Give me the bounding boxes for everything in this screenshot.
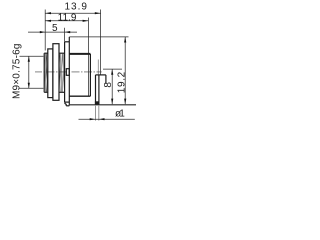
5 arrows (outside) bbox=[40, 31, 45, 33]
19.2 arrows bbox=[124, 37, 126, 43]
svg-text:8: 8 bbox=[103, 82, 114, 88]
body right edges bbox=[89, 54, 91, 96]
extension line for 5 (x=64.4) bbox=[64, 28, 66, 42]
collar flange bottom bbox=[65, 101, 70, 103]
dimension line 8 bbox=[111, 69, 113, 104]
solder lug tab bbox=[64, 102, 66, 104]
washer bbox=[48, 49, 53, 98]
M9 upper extension line bbox=[20, 55, 44, 57]
svg-text:13.9: 13.9 bbox=[65, 2, 88, 13]
extension line for 11.9 / body inner edge (x=87.8) bbox=[87, 18, 89, 97]
dimension line 19.2 bbox=[124, 37, 126, 104]
svg-text:19.2: 19.2 bbox=[117, 71, 128, 93]
svg-text:11.9: 11.9 bbox=[58, 13, 77, 24]
body top thick bbox=[69, 53, 90, 55]
component bbox=[44, 37, 106, 106]
body left edge / collar right edge bbox=[68, 37, 70, 106]
dimension line 13.9 bbox=[45, 12, 100, 14]
board line bbox=[70, 104, 136, 106]
collar flange top bbox=[65, 41, 70, 43]
dimension line dia 1 bbox=[79, 118, 135, 120]
11.9 arrows bbox=[45, 20, 51, 22]
bushing tip face bbox=[43, 53, 45, 92]
extension line left (x=45.2) bbox=[44, 10, 46, 51]
nut bbox=[53, 44, 59, 101]
thread outline segment B bbox=[59, 52, 65, 54]
13.9 arrows bbox=[45, 12, 51, 14]
thread hatch B bbox=[59, 53, 64, 92]
pin tip fill bbox=[95, 101, 100, 104]
pin sides bbox=[95, 75, 97, 105]
svg-text:M9×0.75-6g: M9×0.75-6g bbox=[12, 43, 23, 99]
dimension line 11.9 bbox=[45, 20, 88, 22]
M9 dimension line bbox=[28, 56, 30, 88]
frame top extension line for 19.2 bbox=[69, 36, 128, 38]
dia1 arrows (outside) bbox=[90, 118, 96, 120]
M9 lower extension line bbox=[20, 87, 44, 89]
small boss on centerline bbox=[66, 69, 69, 76]
collar flange left edge bbox=[64, 42, 66, 102]
svg-text:5: 5 bbox=[52, 23, 58, 34]
svg-text:ø1: ø1 bbox=[115, 108, 125, 119]
extension line for 13.9 / bracket edge (x=100.6) bbox=[100, 10, 102, 75]
8 arrows bbox=[111, 69, 113, 75]
arrowheads bbox=[28, 12, 127, 120]
dimension line 5 bbox=[28, 31, 77, 33]
extension line for 8 (y=69.1) bbox=[103, 68, 122, 70]
bracket step bbox=[96, 74, 106, 76]
body bottom bbox=[69, 95, 90, 97]
M9 arrows bbox=[28, 56, 30, 62]
thread hatch A bbox=[44, 53, 48, 92]
centerline bbox=[35, 71, 102, 73]
thread outline segment A bbox=[44, 52, 48, 54]
extension lines for pin dia bbox=[94, 106, 96, 121]
pin upper faint line bbox=[97, 60, 99, 75]
